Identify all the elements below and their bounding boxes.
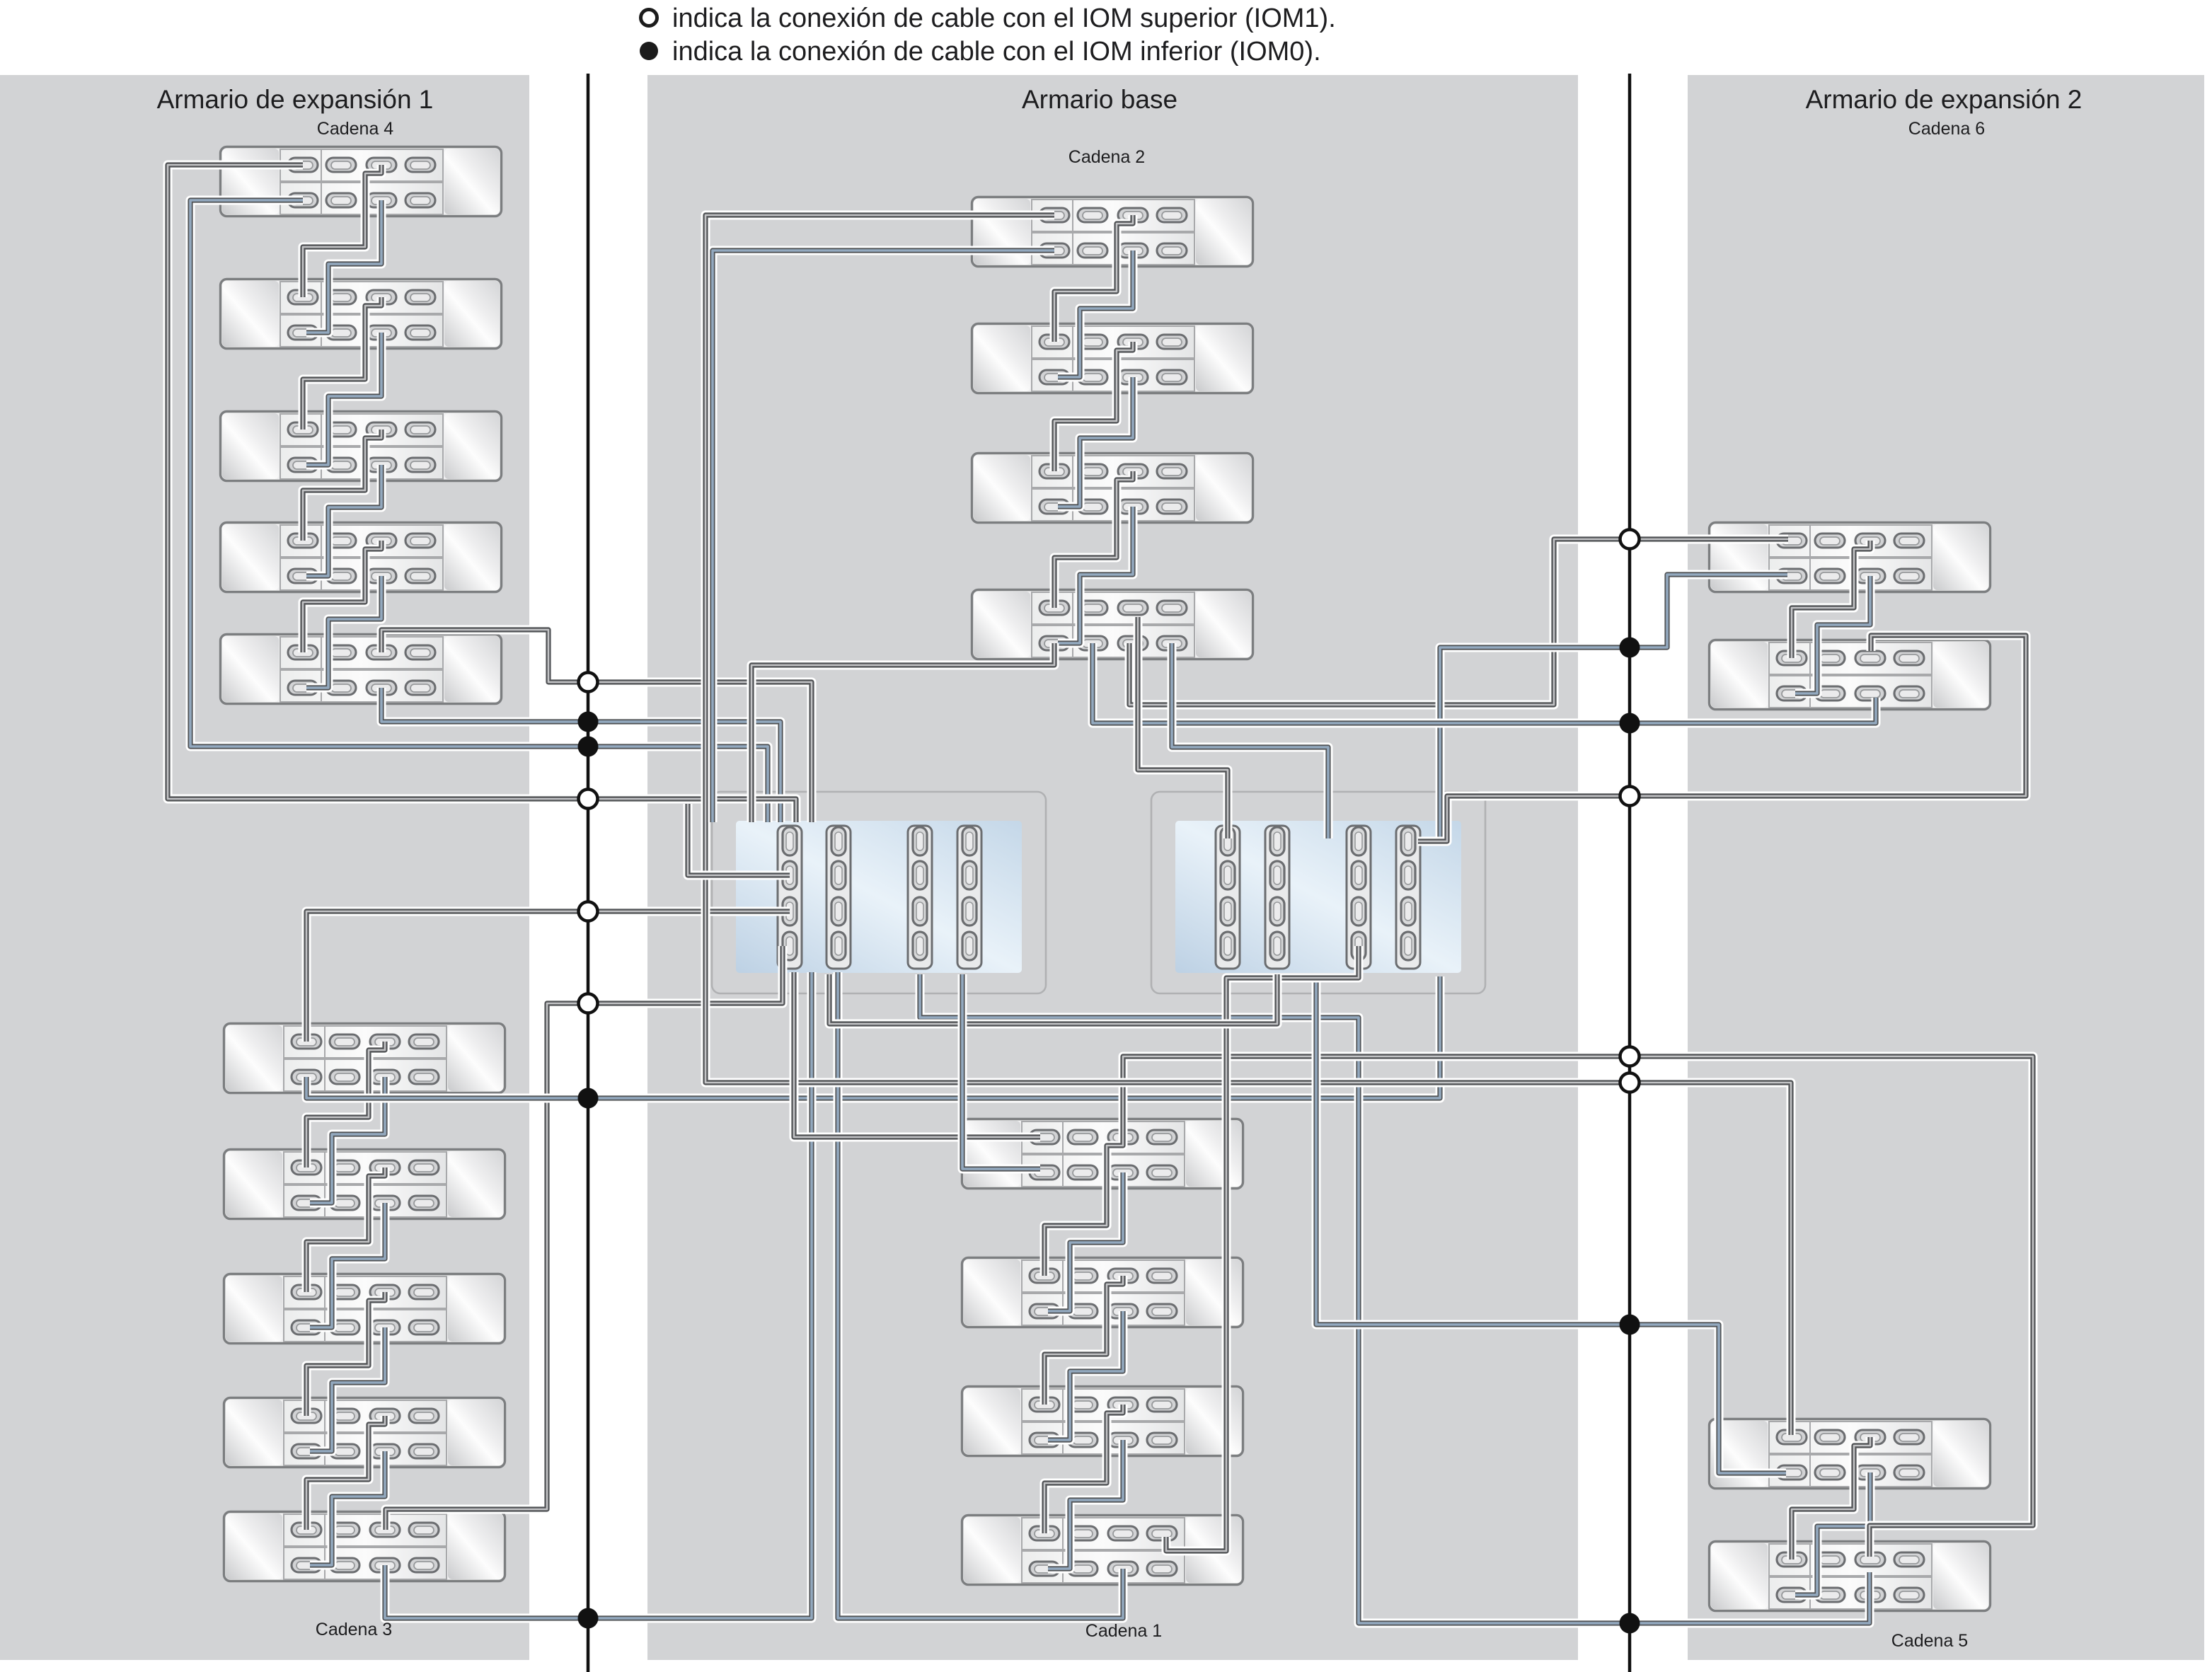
svg-text:indica la conexión de cable co: indica la conexión de cable con el IOM s… xyxy=(672,4,1336,33)
svg-text:Cadena 1: Cadena 1 xyxy=(1085,1621,1162,1641)
svg-text:Cadena 5: Cadena 5 xyxy=(1891,1631,1968,1651)
svg-text:Cadena 4: Cadena 4 xyxy=(317,119,394,139)
svg-text:Cadena 2: Cadena 2 xyxy=(1068,147,1145,167)
svg-text:Armario de expansión 2: Armario de expansión 2 xyxy=(1806,85,2083,114)
svg-text:Armario base: Armario base xyxy=(1022,85,1177,114)
svg-text:indica la conexión de cable co: indica la conexión de cable con el IOM i… xyxy=(672,37,1321,67)
svg-text:Cadena 3: Cadena 3 xyxy=(316,1620,392,1639)
svg-text:Armario de expansión 1: Armario de expansión 1 xyxy=(157,85,434,114)
svg-text:Cadena 6: Cadena 6 xyxy=(1908,119,1985,139)
